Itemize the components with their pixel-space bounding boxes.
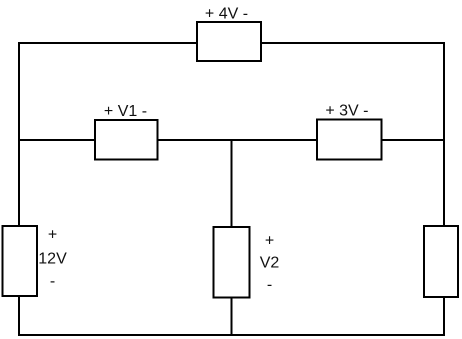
element 3V (box) xyxy=(317,120,382,160)
wire: top horizontal, right of element 4V xyxy=(261,42,444,44)
svg-text:+: + xyxy=(48,226,57,243)
svg-text:+ 4V -: + 4V - xyxy=(205,6,248,23)
wire: right vertical lower xyxy=(443,296,445,336)
svg-text:V2: V2 xyxy=(260,254,280,271)
svg-text:-: - xyxy=(267,277,272,294)
svg-text:+: + xyxy=(265,233,274,250)
element 12V (left box) xyxy=(3,226,38,296)
wire: middle horizontal, V1 to 3V with center junction xyxy=(158,139,318,141)
element V2 (middle box) xyxy=(214,227,250,298)
wire: middle vertical, junction down to element V2 xyxy=(231,140,233,227)
svg-text:-: - xyxy=(50,273,55,290)
wire: middle vertical, V2 to bottom rail xyxy=(231,298,233,336)
wire: middle horizontal, left node to V1 xyxy=(19,139,95,141)
wire: left vertical lower and bottom rail xyxy=(19,296,444,335)
wire: right vertical upper xyxy=(443,42,445,226)
element 4V (top box) xyxy=(197,22,261,61)
wire: left vertical and top horizontal to element 4V xyxy=(19,43,197,226)
wire: middle horizontal, 3V to right vertical xyxy=(382,139,445,141)
svg-text:12V: 12V xyxy=(38,251,67,268)
svg-text:+ 3V -: + 3V - xyxy=(325,103,368,120)
svg-text:+ V1 -: + V1 - xyxy=(104,103,147,120)
element V1 (box) xyxy=(95,120,158,160)
element right (unlabeled box) xyxy=(424,226,458,297)
